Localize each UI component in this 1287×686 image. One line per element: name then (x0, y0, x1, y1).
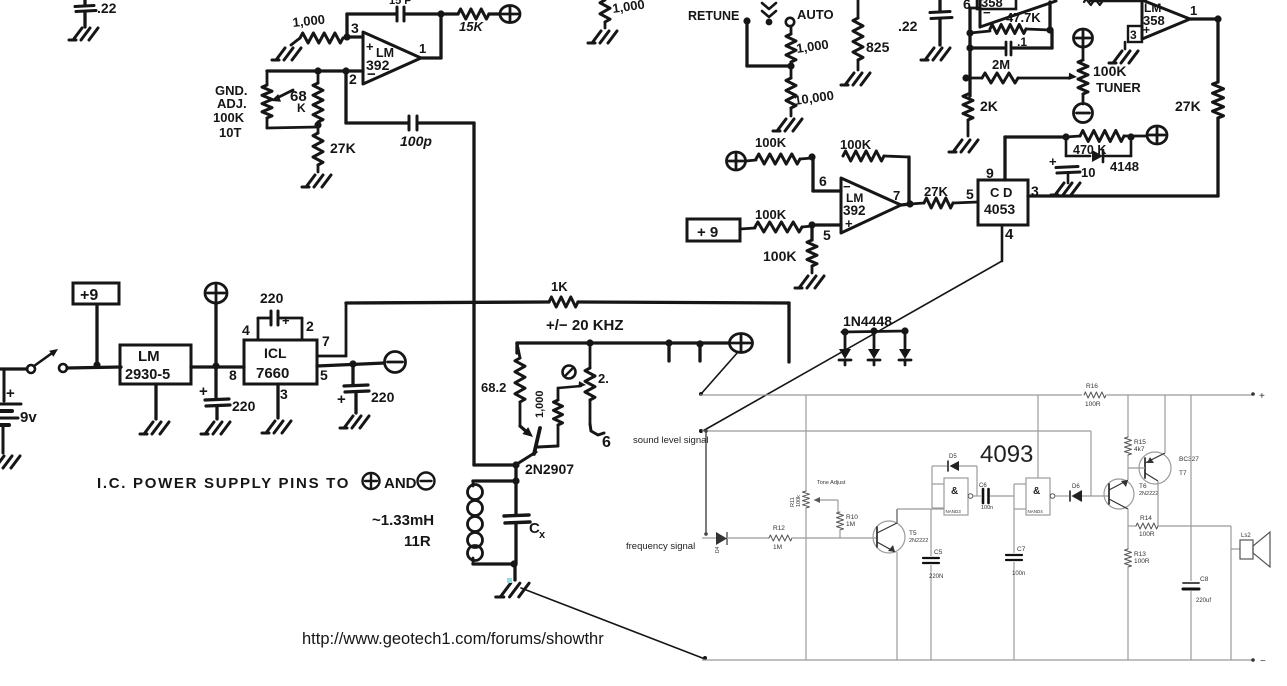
power -V terminal (supply) (385, 352, 406, 373)
potentiometer GND ADJ 100K 10T (213, 71, 318, 140)
pin label 3 (ICL) (280, 386, 288, 402)
svg-text:1M: 1M (773, 544, 782, 551)
capacitor .22 (second) (898, 0, 952, 45)
resistor 47.7K (970, 10, 1050, 34)
resistor 15K (441, 9, 499, 34)
node 470K right (1127, 133, 1134, 140)
svg-text:3: 3 (351, 20, 359, 36)
wire 470K net (1005, 135, 1066, 138)
svg-text:C8: C8 (1200, 576, 1209, 583)
resistor 68K (290, 71, 323, 122)
op-amp U3 LM358 (1142, 0, 1197, 39)
node pin5 junction (349, 360, 356, 367)
pin label 5 (CD) (966, 186, 974, 202)
svg-text:TUNER: TUNER (1096, 80, 1141, 95)
nand gate NAND3 (932, 466, 968, 515)
wire ICL gnd (276, 384, 279, 418)
svg-text:C D: C D (990, 185, 1012, 200)
svg-text:1: 1 (1190, 3, 1197, 18)
svg-text:100k: 100k (796, 495, 802, 507)
svg-text:+/− 20 KHZ: +/− 20 KHZ (546, 317, 624, 334)
svg-text:R15: R15 (1134, 439, 1146, 446)
svg-text:27K: 27K (924, 184, 948, 199)
wire annotation (gnd to inset) (521, 588, 707, 660)
svg-text:1K: 1K (551, 279, 568, 294)
wire LM2930 gnd (154, 384, 157, 419)
svg-text:2N2222: 2N2222 (1139, 491, 1158, 497)
coil hook symbol (602, 434, 611, 451)
svg-text:NAND4: NAND4 (1028, 509, 1044, 514)
wire pin3 net (1028, 194, 1218, 197)
resistor R14 (1128, 515, 1231, 538)
resistor 2K (963, 94, 998, 136)
speaker Ls2 (1231, 526, 1270, 660)
capacitor .1 (970, 30, 1052, 55)
circled wiper symbol (563, 366, 576, 379)
node pin8 junction (212, 362, 219, 369)
svg-text:2N2907: 2N2907 (525, 461, 574, 477)
pin label 9 (986, 165, 994, 181)
wire 1K end down (787, 303, 790, 362)
svg-text:100K: 100K (1093, 63, 1126, 79)
wire ICL pin7 (317, 303, 346, 356)
pin label 4 (242, 322, 250, 338)
ground (oscillator) (496, 583, 529, 597)
wire collector to vertical (474, 465, 516, 482)
svg-text:BC327: BC327 (1179, 456, 1199, 463)
svg-text:4k7: 4k7 (1134, 446, 1145, 453)
wiper arrow (GND ADJ) (271, 90, 293, 102)
switch SW1 (27, 349, 67, 373)
svg-text:+: + (1143, 23, 1150, 37)
svg-text:R14: R14 (1140, 515, 1152, 522)
node auto junction (787, 62, 794, 69)
node U4 out (906, 200, 913, 207)
svg-text:6: 6 (602, 434, 611, 451)
pin label 4 (CD) (1005, 226, 1014, 243)
svg-text:2M: 2M (992, 57, 1010, 72)
ground (1,000 retune) (588, 31, 617, 43)
svg-text:100K: 100K (763, 248, 796, 264)
resistor 100K (c gnd) (763, 226, 817, 273)
svg-text:~1.33mH: ~1.33mH (372, 512, 434, 529)
svg-text:D5: D5 (949, 454, 957, 460)
node +9 junction (93, 361, 100, 368)
transistor T5 2N2222 (873, 509, 944, 660)
svg-text:+: + (282, 313, 290, 328)
pot 100K TUNER (1078, 47, 1141, 104)
svg-text:100n: 100n (981, 505, 993, 511)
svg-text:D6: D6 (1072, 484, 1080, 490)
svg-text:−: − (367, 66, 376, 83)
wire long vertical (100p to Q1) (472, 123, 475, 465)
wire sound level (702, 431, 1091, 496)
svg-text:RETUNE: RETUNE (688, 9, 739, 23)
wire Cx to ground (513, 564, 516, 580)
wire R12 to T5 (792, 537, 877, 539)
svg-text:2: 2 (349, 71, 357, 87)
svg-text:−: − (1260, 656, 1266, 667)
svg-text:+: + (366, 39, 374, 54)
resistor 470K (1066, 131, 1146, 158)
ground (100K c) (795, 276, 824, 288)
svg-text:9v: 9v (20, 409, 37, 426)
capacitor 220 (flying, ICL top) (258, 290, 302, 340)
wire battery to switch (0, 367, 27, 370)
resistor R12 (769, 525, 792, 551)
capacitor C8 (1183, 395, 1211, 660)
svg-text:R12: R12 (773, 525, 785, 532)
wire oscillator rail (517, 343, 729, 353)
ground (2K) (949, 140, 978, 152)
svg-text:9: 9 (986, 165, 994, 181)
pin label 5 (ICL) (320, 367, 328, 383)
svg-text:4148: 4148 (1110, 159, 1139, 174)
svg-text:2.: 2. (598, 371, 609, 386)
svg-text:100K: 100K (755, 135, 787, 150)
svg-text:7: 7 (322, 333, 330, 349)
wire pin9 up (1003, 137, 1006, 180)
svg-text:&: & (951, 486, 958, 497)
ground (10,000) (773, 119, 802, 131)
wire D4 to R12 (727, 537, 769, 539)
top edge wire fragment (1084, 0, 1146, 5)
ground (cap 10) (1051, 183, 1080, 195)
svg-text:4093: 4093 (980, 441, 1033, 468)
svg-text:7660: 7660 (256, 365, 289, 382)
inductor L1 1.33mH (468, 481, 483, 564)
wire U3 pin3 gnd (1124, 42, 1127, 49)
ground (U3 pin3) (1109, 51, 1138, 63)
resistor R16 (1082, 383, 1107, 408)
power +V terminal (supply) (205, 283, 227, 303)
svg-text:x: x (539, 529, 546, 541)
svg-text:frequency signal: frequency signal (626, 541, 695, 552)
svg-text:C5: C5 (934, 549, 943, 556)
svg-text:LM: LM (138, 348, 160, 365)
resistor 27K (to CD4053) (910, 184, 978, 208)
svg-text:+ 9: + 9 (697, 224, 718, 241)
ground (under .22 top-left) (69, 28, 98, 40)
node retune dot (743, 17, 750, 24)
wire annotation (plus to inset) (699, 352, 738, 396)
ground (under 1,000) (272, 48, 301, 60)
wire U2 left vertical (970, 8, 980, 96)
svg-text:sound level signal: sound level signal (633, 435, 709, 446)
wire nand4 top (1037, 395, 1039, 478)
svg-text:D4: D4 (715, 546, 721, 553)
svg-text:AUTO: AUTO (797, 7, 834, 22)
svg-text:6: 6 (819, 173, 827, 189)
label 1N4448 (843, 313, 892, 329)
analog switch CD4053 (978, 180, 1028, 225)
charge-pump ICL7660 (244, 340, 317, 384)
ground (under 27K) (302, 175, 331, 187)
node rail stub2 (696, 340, 703, 361)
wire pin4 down (1001, 225, 1004, 261)
svg-text:100p: 100p (400, 133, 432, 149)
node U4 pin6 node (808, 153, 815, 160)
label RETUNE (688, 9, 739, 23)
node U4 pin5 node (808, 221, 815, 228)
svg-text:100K: 100K (213, 110, 245, 125)
ground (LM2930) (140, 422, 169, 434)
wire retune net (747, 24, 791, 66)
regulator LM2930-5 (120, 345, 191, 384)
transistor Q1 2N2907 (517, 426, 574, 477)
capacitor C7 (1006, 509, 1026, 660)
svg-text:1,000: 1,000 (534, 390, 546, 418)
diode 4148 (1066, 137, 1139, 174)
svg-text:R13: R13 (1134, 551, 1146, 558)
wire pin6 (813, 157, 841, 191)
label AUTO (797, 7, 834, 22)
svg-text:4: 4 (242, 322, 250, 338)
svg-text:AND: AND (384, 475, 417, 492)
svg-text:100K: 100K (755, 207, 787, 222)
wire output to feedback (421, 14, 441, 58)
wire pin2 net (267, 69, 363, 72)
node 68K bottom (314, 121, 321, 128)
capacitor 15p (feedback U1) (347, 0, 441, 21)
wire feedback down (907, 157, 910, 203)
svg-text:+: + (199, 383, 208, 400)
resistor R15 (1125, 395, 1147, 455)
node U3 out (1214, 15, 1221, 22)
power -V terminal (tuner) (1074, 104, 1093, 123)
resistor 100K (feedback U4) (840, 137, 909, 161)
resistor 100K (b) (740, 207, 812, 232)
ground (825) (841, 73, 870, 85)
svg-text:3: 3 (280, 386, 288, 402)
wire LM2930 to ICL (191, 365, 244, 368)
pin label 2 (306, 318, 314, 334)
wire U3 output (1190, 17, 1218, 20)
svg-text:3: 3 (1130, 28, 1137, 42)
wire switch to LM2930 (67, 367, 121, 368)
svg-text:&: & (1033, 486, 1040, 497)
power +V terminal (tuner) (1074, 29, 1093, 47)
wire feedback vertical (345, 14, 348, 37)
svg-text:15K: 15K (459, 19, 484, 34)
node .1 left (966, 44, 973, 51)
node collector junction (512, 461, 519, 468)
svg-text:1: 1 (419, 41, 426, 56)
ground (.22 second) (921, 48, 950, 60)
label URL (302, 630, 604, 648)
wire +V to rail (214, 303, 217, 366)
power +V terminal (15K) (500, 6, 520, 23)
svg-text:+9: +9 (80, 287, 98, 304)
capacitor C5 (923, 509, 943, 660)
svg-text:2N2222: 2N2222 (909, 538, 928, 544)
svg-text:ICL: ICL (264, 345, 287, 361)
power +V terminal (rail) (730, 334, 753, 353)
node Cx bottom junction (510, 560, 517, 567)
wire inset input vertical (704, 429, 708, 536)
svg-text:100n: 100n (1012, 571, 1025, 577)
svg-text:10: 10 (1081, 165, 1095, 180)
op-amp U1 LM392 (349, 20, 426, 87)
supply box +9 (left) (73, 283, 119, 304)
wire frequency (702, 537, 716, 539)
resistor 1,000 (auto) (786, 26, 830, 66)
diode D4 (715, 532, 727, 553)
svg-text:2930-5: 2930-5 (125, 367, 170, 383)
svg-text:27K: 27K (330, 140, 356, 156)
capacitor 10 (1049, 154, 1095, 183)
label sound level signal (633, 435, 709, 446)
switch wiper arrows (retune) (762, 3, 776, 25)
label frequency signal (626, 541, 695, 552)
svg-text:R16: R16 (1086, 383, 1098, 390)
ground (ICL) (262, 421, 291, 433)
diode D5 (932, 454, 977, 496)
node pin2 j1 (314, 67, 321, 74)
svg-text:27K: 27K (1175, 98, 1201, 114)
svg-text:NAND3: NAND3 (946, 509, 962, 514)
pin label 3 (CD) (1031, 183, 1039, 199)
node coil junction top (512, 477, 519, 484)
marker cyan dot (507, 578, 512, 583)
wire coil top (473, 479, 516, 482)
svg-text:1M: 1M (846, 521, 855, 528)
wire pin5 (812, 223, 841, 226)
node pin2 j2 (342, 67, 349, 74)
resistor R13 (1125, 526, 1150, 660)
resistor 1K (346, 279, 789, 307)
svg-text:1N4448: 1N4448 (843, 313, 892, 329)
transistor T7 BC327 (1128, 395, 1199, 526)
battery 9v (0, 369, 37, 453)
resistor 1,000 (retune gnd) (600, 0, 646, 28)
pin3 box (U3) (1128, 26, 1142, 42)
wire 47.7K up (1048, 2, 1051, 30)
node pin3 junction (343, 33, 350, 40)
transistor T6 2N2222 (1104, 455, 1158, 526)
resistor R10 (837, 500, 859, 538)
diode D6 (1070, 484, 1109, 502)
svg-text:825: 825 (866, 39, 890, 55)
label IC power supply note (97, 473, 435, 493)
svg-text:.1: .1 (1017, 35, 1027, 49)
svg-text:220: 220 (260, 290, 284, 306)
wire coil bottom (473, 562, 514, 565)
node 470K left (1062, 133, 1069, 140)
node rail stub1 (665, 339, 672, 361)
svg-text:+: + (845, 216, 853, 231)
node 47.7K right (1046, 26, 1053, 33)
svg-text:15 P: 15 P (389, 0, 412, 7)
resistor 27K (313, 122, 356, 172)
svg-text:R10: R10 (846, 514, 858, 521)
svg-text:7: 7 (893, 188, 900, 203)
svg-text:10T: 10T (219, 125, 241, 140)
capacitor 100p (346, 116, 474, 149)
resistor 2M (966, 57, 1077, 83)
ground (220 pin5) (340, 416, 369, 428)
svg-text:5: 5 (320, 367, 328, 383)
svg-text:+: + (1259, 391, 1265, 402)
node 2M left (962, 74, 969, 81)
svg-text:−: − (983, 5, 991, 20)
op-amp U2 LM358 (cut top) (963, 0, 1056, 27)
svg-text:C6: C6 (979, 483, 987, 489)
op-amp U4 LM392 (823, 178, 901, 243)
svg-text:5: 5 (823, 227, 831, 243)
svg-text:T7: T7 (1179, 470, 1187, 477)
svg-text:220: 220 (232, 398, 256, 414)
svg-text:47.7K: 47.7K (1006, 10, 1041, 25)
svg-text:100K: 100K (840, 137, 872, 152)
wire ICL pin5 to -V (317, 363, 384, 366)
wire pin3 to op-amp (347, 35, 363, 38)
svg-text:http://www.geotech1.com/forums: http://www.geotech1.com/forums/showthr (302, 630, 604, 648)
pin label 8 (229, 367, 237, 383)
nand gate NAND4 (1014, 478, 1050, 515)
pot 2.5K (rail) (585, 343, 609, 435)
label 1.33mH (372, 512, 434, 550)
svg-text:100R: 100R (1139, 531, 1155, 538)
svg-text:T6: T6 (1139, 483, 1147, 490)
resistor 1,000 (vertical, Q1 base) (534, 381, 586, 445)
svg-text:ADJ.: ADJ. (217, 96, 247, 111)
svg-text:I.C. POWER SUPPLY PINS TO: I.C. POWER SUPPLY PINS TO (97, 475, 350, 492)
svg-text:8: 8 (229, 367, 237, 383)
resistor 100K (a) (746, 135, 812, 164)
svg-text:100R: 100R (1134, 558, 1150, 565)
node rail j1 (586, 339, 593, 346)
nand4 output bubble (1050, 494, 1069, 499)
capacitor .22 (top-left) (75, 0, 117, 27)
svg-text:Ls2: Ls2 (1241, 533, 1251, 539)
power +V terminal (470K) (1147, 126, 1167, 144)
resistor 825 (853, 0, 890, 70)
diode array 1N4448 (839, 327, 911, 365)
resistor 10,000 (786, 66, 835, 116)
capacitor C6 (979, 483, 1014, 511)
supply box +9 (U4) (687, 219, 740, 241)
resistor 27K (right) (1175, 19, 1224, 196)
ground (220 pin8) (201, 422, 230, 434)
capacitor 220 (pin5) (337, 364, 395, 413)
svg-text:+: + (6, 385, 15, 402)
pot R11 100k (Tone Adjust) (790, 395, 846, 660)
svg-text:100R: 100R (1085, 401, 1101, 408)
svg-text:2K: 2K (980, 98, 998, 114)
ground (battery) (0, 456, 20, 468)
label 4093 (980, 441, 1033, 468)
capacitor 220 (pin8) (199, 366, 256, 419)
svg-text:11R: 11R (404, 533, 431, 550)
svg-text:5: 5 (966, 186, 974, 202)
node U2 j1 (966, 29, 973, 36)
svg-text:220N: 220N (929, 574, 943, 580)
svg-text:T5: T5 (909, 530, 917, 537)
resistor 1,000 (pin3 U1) (291, 12, 352, 45)
pin label 7 (322, 333, 330, 349)
resistor 68.2 (481, 343, 525, 426)
capacitor Cx (504, 482, 546, 564)
svg-text:.22: .22 (898, 18, 918, 34)
label +/- 20KHZ (546, 317, 624, 334)
svg-text:68.2: 68.2 (481, 380, 506, 395)
svg-text:220uf: 220uf (1196, 598, 1211, 604)
svg-text:C7: C7 (1017, 546, 1026, 553)
inset top rail (+) (700, 391, 1265, 402)
svg-text:4053: 4053 (984, 201, 1015, 217)
nand3 output bubble (968, 494, 981, 499)
